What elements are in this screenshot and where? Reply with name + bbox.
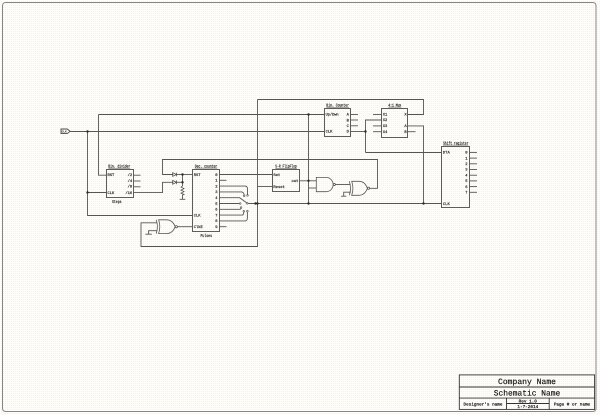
svg-text:out: out <box>292 179 299 184</box>
svg-text:Shift register: Shift register <box>443 140 469 146</box>
svg-text:RST: RST <box>194 173 202 178</box>
svg-text:/8: /8 <box>128 185 133 190</box>
svg-text:CLK: CLK <box>62 131 67 134</box>
svg-text:DTA: DTA <box>443 151 451 156</box>
svg-text:/16: /16 <box>125 191 133 196</box>
svg-text:Dec. counter: Dec. counter <box>195 164 218 169</box>
svg-text:Set: Set <box>273 173 280 178</box>
svg-text:RST: RST <box>108 173 116 178</box>
svg-text:Designer's name: Designer's name <box>464 401 503 407</box>
svg-text:X3: X3 <box>383 124 388 129</box>
svg-text:4:1 Mux: 4:1 Mux <box>388 103 401 108</box>
svg-text:Reset: Reset <box>273 185 284 190</box>
svg-text:Bin. divider: Bin. divider <box>108 163 130 169</box>
svg-text:ClkE: ClkE <box>194 225 204 230</box>
svg-text:X4: X4 <box>383 130 388 135</box>
svg-text:Schematic Name: Schematic Name <box>494 389 561 398</box>
svg-text:7: 7 <box>215 213 217 218</box>
svg-text:Rev 1.0: Rev 1.0 <box>519 399 538 404</box>
svg-text:Company Name: Company Name <box>498 378 556 387</box>
svg-text:Bin. Counter: Bin. Counter <box>326 102 349 108</box>
svg-text:Up/Dwn: Up/Dwn <box>326 113 339 118</box>
svg-text:CLK: CLK <box>443 202 451 207</box>
svg-text:/4: /4 <box>128 179 133 184</box>
svg-text:S-R FlipFlop: S-R FlipFlop <box>275 164 297 170</box>
svg-text:CLK: CLK <box>194 214 202 219</box>
svg-text:7: 7 <box>465 191 467 196</box>
svg-text:Steps: Steps <box>112 200 122 205</box>
svg-text:X2: X2 <box>383 118 388 123</box>
svg-text:Page # or name: Page # or name <box>554 402 591 407</box>
svg-text:1-7-2014: 1-7-2014 <box>517 405 538 410</box>
svg-text:X1: X1 <box>383 112 388 117</box>
svg-text:/2: /2 <box>128 173 133 178</box>
svg-text:CLK: CLK <box>108 191 116 196</box>
svg-text:Pulses: Pulses <box>201 233 213 239</box>
svg-text:CLK: CLK <box>326 130 334 135</box>
